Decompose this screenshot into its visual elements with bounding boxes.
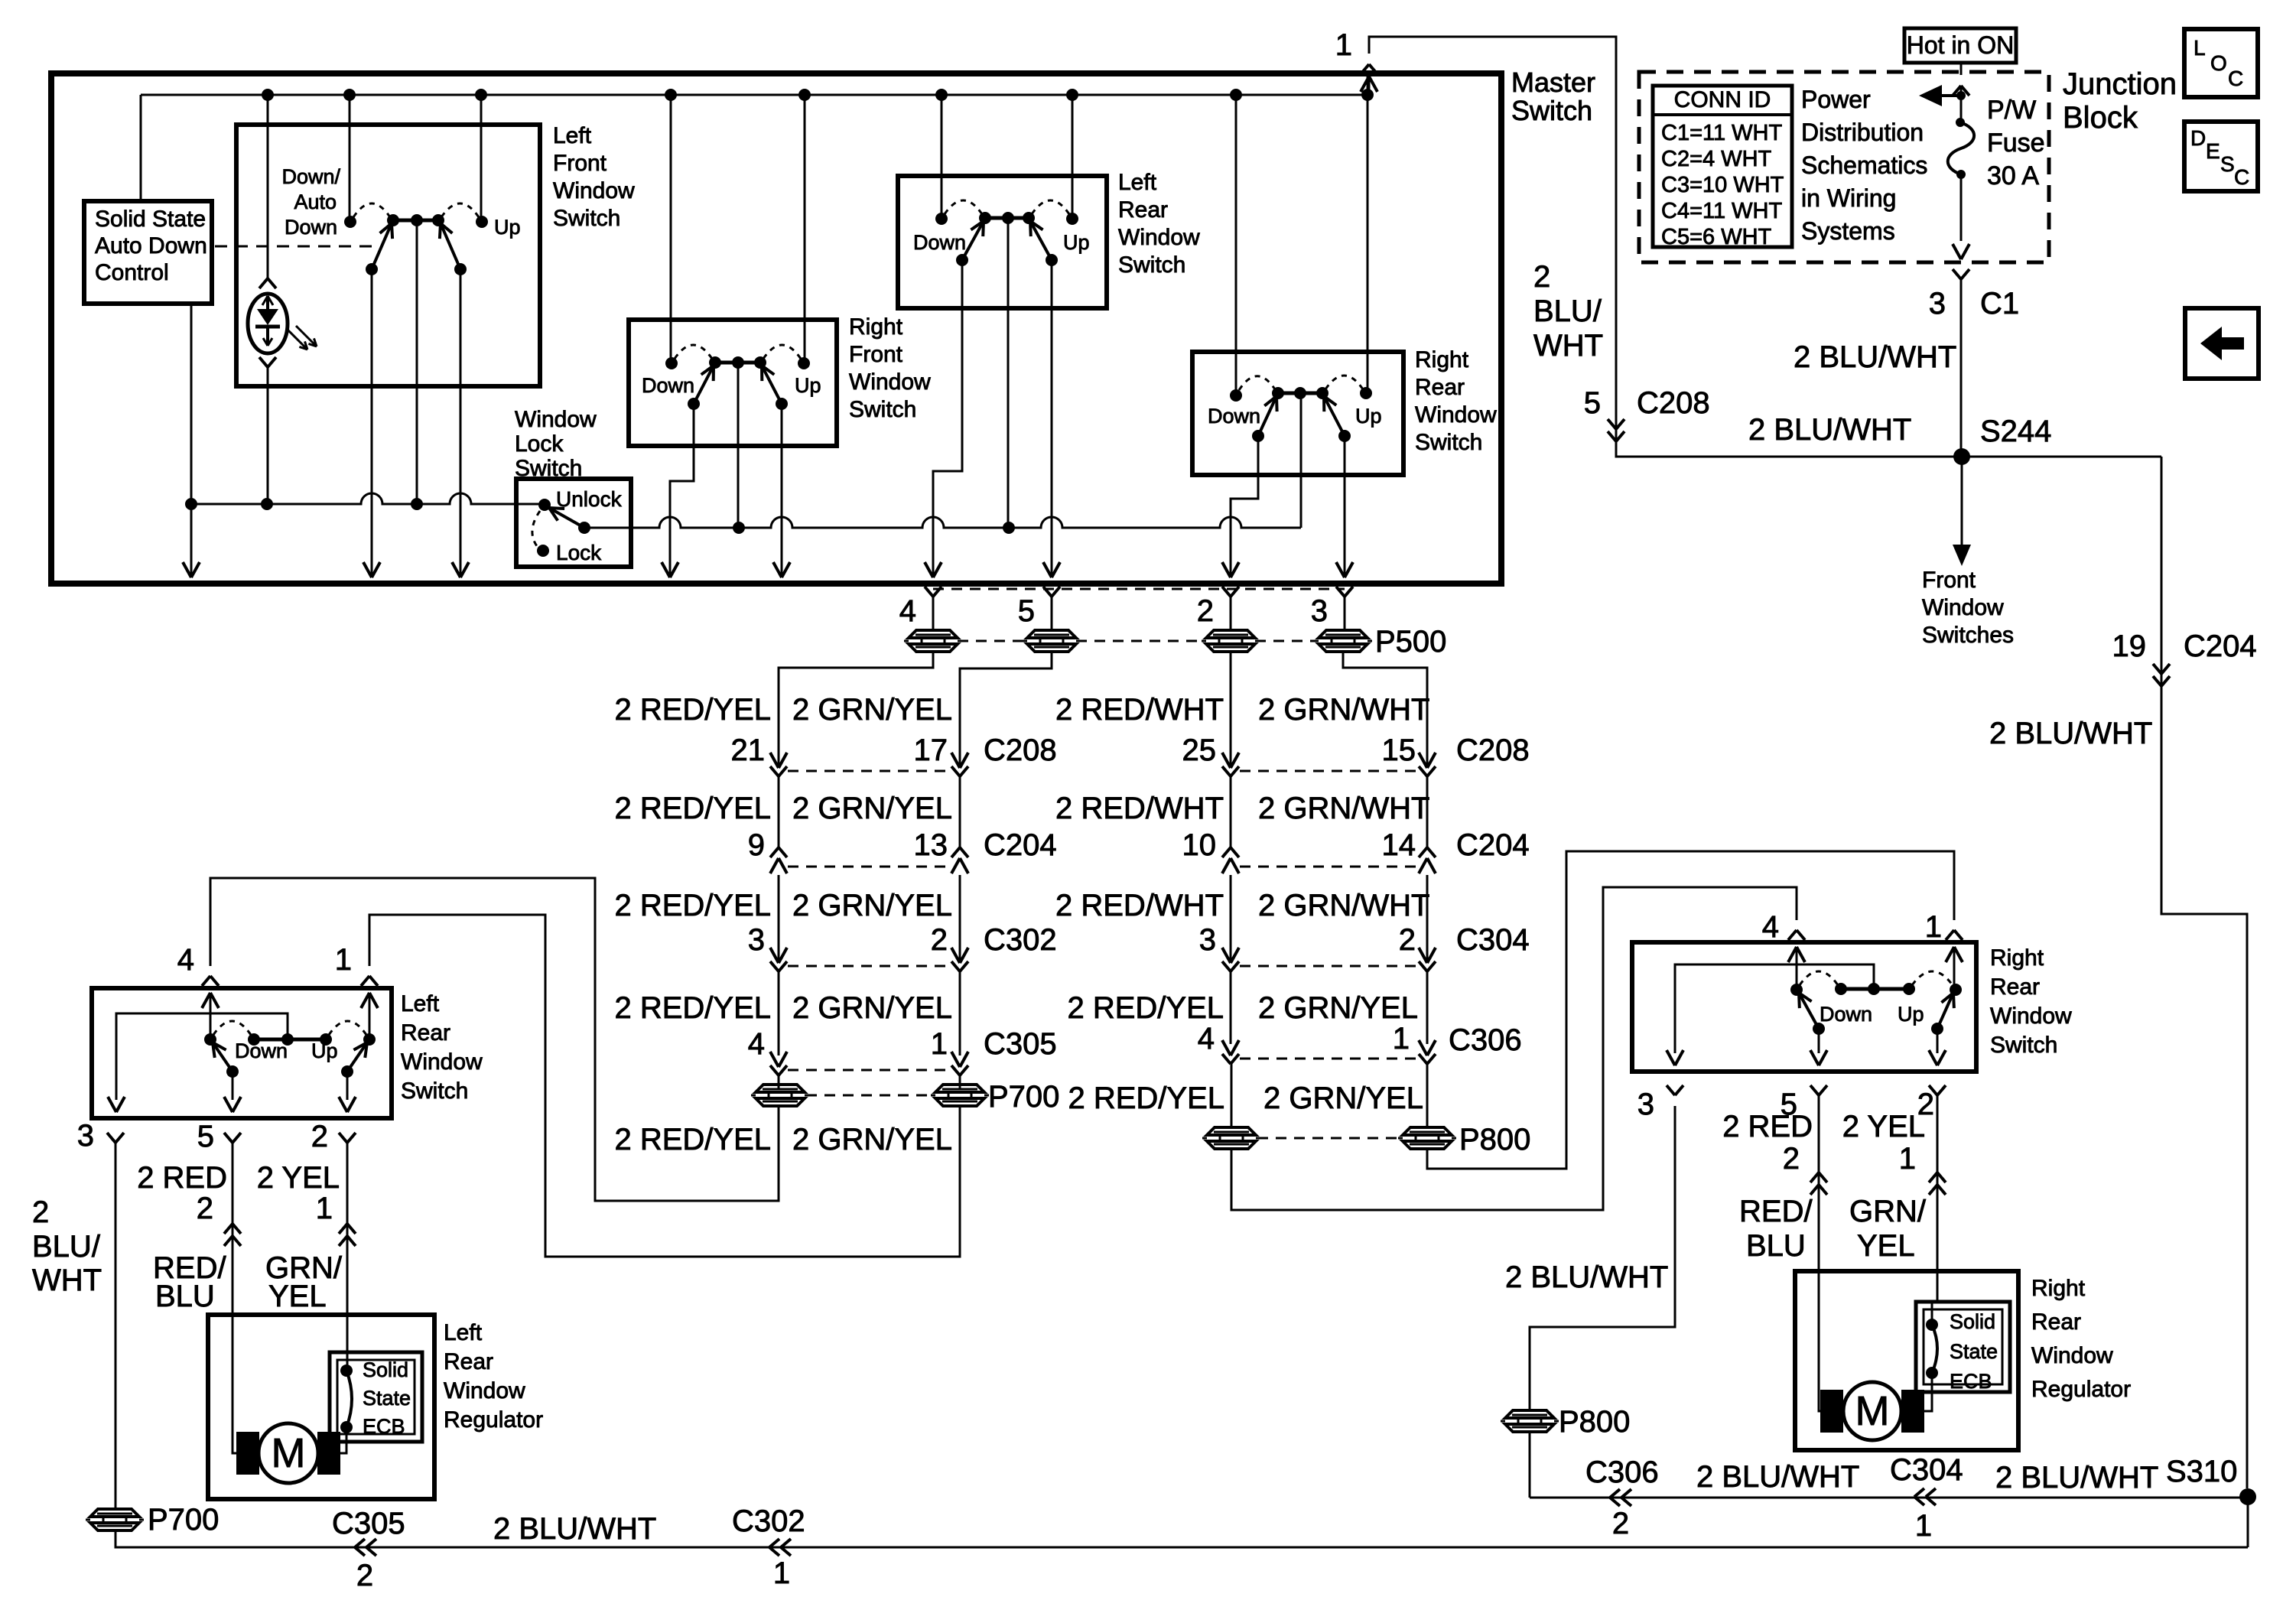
arrow into master bottom at 486: [363, 562, 372, 577]
node bus tap RFW up: [798, 89, 811, 101]
svg-text:E: E: [2206, 139, 2220, 163]
lower bus wire: [584, 517, 1301, 528]
svg-text:in Wiring: in Wiring: [1801, 184, 1896, 212]
RRWm right arm: [1324, 396, 1345, 436]
top bus: [141, 94, 1368, 96]
svg-text:2 RED/WHT: 2 RED/WHT: [1055, 792, 1224, 825]
svg-text:Window: Window: [849, 369, 931, 395]
svg-text:C306: C306: [1449, 1023, 1522, 1057]
C304 chevrons wire2: [1929, 1173, 1937, 1182]
wire col1 C208-C204: [778, 776, 780, 847]
wire col4 C204-C304: [1426, 875, 1429, 963]
wire pin5 to motor left: [233, 1315, 241, 1453]
svg-text:P500: P500: [1375, 625, 1446, 659]
wire S244 to C204 right: [2161, 457, 2163, 665]
wire P800 to bus corner: [1529, 1432, 1531, 1498]
svg-text:C204: C204: [2184, 629, 2257, 663]
LRWm down contact: [935, 213, 948, 225]
svg-text:Lock: Lock: [515, 431, 564, 457]
RRWm left arm: [1258, 396, 1276, 436]
C208 dashes right: [1240, 770, 1418, 772]
ECB switch left: [340, 1364, 353, 1377]
LED lamp circle: [248, 294, 288, 353]
wire right side to S244: [1616, 413, 2161, 457]
svg-text:21: 21: [731, 733, 766, 767]
LRW common link: [116, 1013, 288, 1100]
svg-text:C304: C304: [1890, 1453, 1963, 1487]
pin 3 fork below LRW: [107, 1133, 115, 1143]
LED light arrows: [287, 329, 307, 350]
svg-text:Right: Right: [1415, 347, 1469, 372]
svg-text:Window: Window: [553, 178, 635, 203]
RRWm dashed arc up: [1325, 376, 1363, 389]
wire bus to LED: [267, 95, 269, 278]
svg-text:C5=6 WHT: C5=6 WHT: [1661, 225, 1772, 249]
C305 chevron bottom bus: [355, 1539, 365, 1547]
node S244: [1953, 448, 1970, 465]
wire pin1 to bus: [1368, 76, 1371, 95]
wire right down to S310: [2161, 664, 2247, 1488]
wire pin1 to right side top: [1369, 37, 1616, 415]
svg-text:2 GRN/YEL: 2 GRN/YEL: [792, 693, 952, 727]
svg-text:Down: Down: [913, 231, 966, 254]
svg-text:Lock: Lock: [556, 541, 602, 564]
wire pin1 to up contact: [369, 993, 371, 1039]
RRW left arm dot: [1813, 1023, 1825, 1035]
LFW up contact: [476, 216, 488, 228]
svg-text:Up: Up: [1355, 405, 1382, 428]
RRW arm2 exit arrow: [1929, 1050, 1937, 1065]
svg-text:2 BLU/WHT: 2 BLU/WHT: [1696, 1460, 1859, 1494]
node LRWm center lower bus: [1003, 522, 1015, 534]
arrow into master bottom at 1022: [773, 562, 782, 577]
svg-text:2 BLU/WHT: 2 BLU/WHT: [1794, 340, 1956, 374]
wire col4 C304-C306: [1426, 971, 1429, 1044]
svg-text:M: M: [1855, 1388, 1890, 1434]
svg-text:2: 2: [1399, 923, 1416, 957]
svg-text:State: State: [363, 1387, 411, 1410]
svg-text:WHT: WHT: [1533, 329, 1603, 363]
svg-text:Front: Front: [553, 151, 607, 176]
svg-text:Rear: Rear: [1990, 974, 2040, 1000]
svg-text:BLU: BLU: [155, 1280, 215, 1313]
P700 dashed link: [806, 1094, 934, 1097]
svg-text:Left: Left: [1118, 170, 1157, 195]
lock switch arm: [549, 508, 584, 528]
svg-text:2: 2: [32, 1195, 49, 1229]
right front window switch box: [629, 320, 837, 446]
svg-text:14: 14: [1382, 828, 1416, 862]
svg-text:1: 1: [335, 943, 352, 977]
P700 connector barrel 2: [935, 1085, 984, 1092]
wire bus to LFW up contact: [480, 95, 483, 222]
svg-text:30 A: 30 A: [1987, 161, 2039, 190]
wire pin 5 to P500: [1051, 597, 1053, 630]
node LED top bus: [262, 89, 274, 101]
svg-text:17: 17: [914, 733, 948, 767]
pin4 fork above LRW: [202, 976, 210, 986]
pin1 entry arrow LRW: [361, 993, 369, 1008]
wire fuse down: [1960, 174, 1963, 241]
wire col4 C306-P800: [1426, 1064, 1429, 1127]
wire pin3 down to P700: [115, 1143, 117, 1509]
svg-text:C302: C302: [732, 1504, 805, 1538]
wire col1 C302-C305: [778, 971, 780, 1055]
LRWm left arm: [962, 221, 984, 260]
P700 connector (left wire): [90, 1509, 139, 1517]
RRWm dashed arc down: [1239, 376, 1275, 390]
node bus tap LFW up: [475, 89, 487, 101]
C204 dashes left: [788, 866, 951, 868]
svg-text:Regulator: Regulator: [2031, 1377, 2131, 1402]
LFW bar dots: [387, 214, 399, 226]
LOC box: [2184, 29, 2258, 97]
wire pin 3 to P500: [1344, 597, 1346, 630]
RRWm bar dots: [1272, 387, 1284, 399]
LFW dashed arc down: [353, 203, 390, 217]
svg-text:5: 5: [197, 1120, 214, 1153]
C306 crossing col3: [1222, 1040, 1231, 1055]
wire col2 C302-C305: [959, 971, 961, 1055]
svg-text:Window: Window: [401, 1049, 483, 1075]
svg-text:C: C: [2228, 67, 2243, 90]
svg-text:Window: Window: [515, 407, 597, 432]
svg-text:Systems: Systems: [1801, 217, 1895, 245]
svg-text:C208: C208: [1637, 386, 1710, 420]
node S310: [2239, 1488, 2256, 1505]
wire RRWm left arm down: [1231, 436, 1258, 575]
solid state auto down control box: [84, 201, 212, 304]
svg-text:Regulator: Regulator: [444, 1407, 543, 1433]
svg-text:M: M: [272, 1430, 306, 1476]
wire col1 C305-P700: [778, 1075, 780, 1089]
svg-text:2 RED/YEL: 2 RED/YEL: [614, 792, 771, 825]
RRW common link: [1675, 964, 1874, 1053]
wire col1 C204-C302: [778, 875, 780, 963]
wire bus to solid state: [140, 95, 142, 201]
node LFW center upper bus: [411, 498, 423, 510]
wire bus to LRWm up contact: [1072, 95, 1074, 219]
LRW arm5 exit arrow: [224, 1097, 233, 1112]
RRW bar dots: [1835, 983, 1847, 995]
pin 4 fork below master: [925, 587, 933, 597]
wire col4 to RRW pin1: [1427, 851, 1954, 1169]
svg-text:2 RED/YEL: 2 RED/YEL: [614, 991, 771, 1025]
svg-text:Switches: Switches: [1922, 623, 2014, 648]
svg-text:C306: C306: [1585, 1456, 1659, 1489]
C304 dashes: [1240, 965, 1418, 968]
svg-text:Switch: Switch: [401, 1078, 468, 1104]
svg-text:9: 9: [748, 828, 765, 862]
LRWm left arm dot: [956, 254, 968, 266]
svg-text:4: 4: [748, 1027, 765, 1061]
svg-text:1: 1: [1925, 910, 1942, 944]
RRWm contact bar: [1278, 392, 1322, 395]
svg-text:3: 3: [1311, 594, 1328, 628]
right rear window switch box (door): [1632, 942, 1976, 1072]
svg-text:2 RED/YEL: 2 RED/YEL: [614, 693, 771, 727]
wire pin3 to bottom bus: [115, 1530, 2248, 1547]
pin 1 fork: [1361, 64, 1369, 74]
svg-text:Auto Down: Auto Down: [95, 233, 207, 259]
RFW left arm dot: [688, 398, 700, 410]
pin 5 fork below LRW: [224, 1133, 233, 1143]
P700 connector barrel 1: [756, 1085, 805, 1092]
pin 3 fork below master: [1336, 587, 1345, 597]
lock contact: [537, 545, 549, 557]
svg-text:2 GRN/YEL: 2 GRN/YEL: [1258, 991, 1418, 1025]
svg-text:Rear: Rear: [1118, 197, 1168, 223]
svg-text:2: 2: [1612, 1507, 1629, 1540]
LRW up contact: [363, 1033, 376, 1046]
svg-text:1: 1: [1393, 1022, 1410, 1055]
svg-text:C302: C302: [984, 923, 1057, 957]
wire LRW right arm down: [346, 1072, 349, 1100]
wire col2 to LRW pin1: [369, 915, 960, 1257]
LRWm contact bar: [985, 216, 1029, 220]
C204 dashes right: [1240, 866, 1418, 868]
svg-text:2 RED/WHT: 2 RED/WHT: [1055, 693, 1224, 727]
node bus tap RRWm down: [1230, 89, 1242, 101]
wire ECB to motor right: [1920, 1373, 1932, 1411]
RFW down contact: [665, 357, 678, 369]
C304 crossing col4: [1419, 948, 1427, 963]
svg-text:3: 3: [1199, 923, 1216, 957]
wire ECB to motor left: [337, 1427, 346, 1453]
svg-text:Down: Down: [1820, 1003, 1872, 1026]
LRW bar dots: [248, 1033, 260, 1046]
pin4 entry arrow LRW: [202, 993, 210, 1008]
svg-text:2: 2: [1197, 594, 1214, 628]
C204 crossing col3: [1222, 847, 1231, 857]
pin 5 fork below master: [1043, 587, 1052, 597]
RRW right arm: [1937, 993, 1953, 1029]
P500 connector barrel 3: [1319, 630, 1368, 638]
C1 fork: [1953, 269, 1961, 279]
wire col2 C305-P700: [959, 1075, 961, 1089]
LRW contact bar: [254, 1038, 326, 1042]
svg-text:S310: S310: [2166, 1455, 2237, 1488]
RRW left arm: [1799, 993, 1819, 1029]
svg-text:2: 2: [1533, 260, 1550, 294]
svg-text:CONN ID: CONN ID: [1674, 87, 1771, 112]
svg-text:Right: Right: [1990, 945, 2044, 971]
svg-text:Block: Block: [2063, 101, 2138, 135]
svg-text:2 RED/YEL: 2 RED/YEL: [1067, 991, 1224, 1025]
svg-text:Window: Window: [1415, 402, 1497, 428]
LFW left arm: [372, 223, 392, 269]
RRWm up contact: [1360, 387, 1372, 399]
wire solid state to lower bus: [190, 304, 193, 575]
arrow into master bottom at 1375: [1043, 562, 1052, 577]
svg-text:3: 3: [1929, 287, 1946, 320]
RFW dashed arc up: [763, 345, 801, 359]
svg-text:ECB: ECB: [1950, 1370, 1992, 1393]
back arrow box: [2185, 308, 2259, 379]
wire C1 to S244: [1960, 279, 1963, 457]
wire bus to RFW down contact: [670, 95, 672, 363]
wire bus to LRWm down contact: [941, 95, 943, 219]
C208 crossing col1: [770, 753, 779, 768]
C306 crossing col4: [1419, 1040, 1427, 1055]
C204 crossing col1: [770, 847, 779, 857]
wire into ECB right: [1931, 1302, 1933, 1325]
svg-text:2 GRN/WHT: 2 GRN/WHT: [1258, 792, 1429, 825]
wire RRWm right arm down: [1344, 436, 1346, 575]
svg-text:Window: Window: [1990, 1003, 2072, 1029]
svg-text:Up: Up: [311, 1039, 338, 1062]
wire bus to RFW up contact: [804, 95, 806, 363]
pin 2 fork below LRW: [339, 1133, 347, 1143]
wire pin5 down RRW: [1818, 1095, 1820, 1271]
left rear window regulator box: [208, 1315, 434, 1499]
svg-text:2 RED/YEL: 2 RED/YEL: [614, 1123, 771, 1156]
svg-text:Front: Front: [849, 342, 903, 367]
svg-text:YEL: YEL: [1857, 1229, 1915, 1263]
RRW down contact: [1790, 984, 1803, 996]
svg-text:D: D: [2190, 126, 2206, 150]
svg-text:Window: Window: [1118, 225, 1200, 250]
svg-text:Solid: Solid: [363, 1358, 408, 1381]
LRW dashed arc up: [329, 1021, 366, 1035]
svg-text:C1: C1: [1980, 287, 2019, 320]
wire col1 to LRW pin4: [210, 878, 779, 1201]
C305 chevrons wire2: [339, 1224, 347, 1234]
svg-text:C304: C304: [1456, 923, 1530, 957]
wire S310 to bottom bus: [2247, 1497, 2249, 1547]
RRW dashed arc down: [1800, 971, 1838, 985]
wire P500-2 down col3: [1230, 652, 1232, 768]
wire pin3 RRW down: [1530, 1106, 1675, 1410]
wire pin2 down: [346, 1143, 349, 1352]
LRW left arm dot: [226, 1065, 239, 1078]
svg-text:Down: Down: [1208, 405, 1260, 428]
svg-text:4: 4: [1762, 910, 1779, 944]
wire fork to node: [1960, 86, 1963, 122]
wire RFW center down: [737, 363, 740, 528]
svg-text:ECB: ECB: [363, 1415, 405, 1438]
right rear window regulator box: [1795, 1271, 2018, 1450]
svg-text:Switch: Switch: [849, 397, 916, 422]
CONN ID table box: [1653, 86, 1792, 247]
svg-text:Left: Left: [553, 123, 592, 148]
wire pin4 to down contact: [210, 993, 212, 1039]
C208 chevrons right wire: [1608, 419, 1616, 429]
pin 1 entry arrow: [1361, 76, 1369, 92]
svg-text:Switch: Switch: [1990, 1033, 2057, 1058]
svg-text:YEL: YEL: [268, 1280, 327, 1313]
svg-text:P800: P800: [1459, 1123, 1530, 1156]
LFW right arm dot: [454, 263, 467, 275]
pin 3 fork below RRW: [1667, 1085, 1675, 1095]
svg-text:2: 2: [931, 923, 948, 957]
svg-text:P800: P800: [1559, 1405, 1630, 1439]
svg-text:Up: Up: [1898, 1003, 1924, 1026]
svg-text:19: 19: [2112, 629, 2147, 663]
svg-text:Window: Window: [1922, 595, 2004, 620]
svg-text:P700: P700: [988, 1080, 1059, 1114]
svg-text:2 RED/YEL: 2 RED/YEL: [1068, 1081, 1224, 1115]
P500 connector barrel 4: [909, 630, 958, 638]
pin 5 fork below RRW: [1810, 1085, 1819, 1095]
unlock contact: [538, 499, 551, 511]
svg-text:25: 25: [1182, 733, 1217, 767]
svg-text:2 BLU/WHT: 2 BLU/WHT: [493, 1512, 656, 1546]
svg-text:State: State: [1950, 1340, 1998, 1363]
LRW right arm dot: [341, 1065, 353, 1078]
fuse exit arrow: [1953, 244, 1961, 259]
LRW right arm: [347, 1042, 367, 1072]
LRWm dashed arc down: [945, 200, 982, 214]
LFW dashed arc up: [441, 203, 479, 217]
svg-text:2: 2: [1783, 1142, 1800, 1176]
wire col3 C208-C204: [1230, 776, 1232, 847]
wire LRWm center down: [1007, 218, 1010, 528]
RFW bar dots: [709, 356, 721, 369]
wire pin1 to up contact RRW: [1953, 947, 1956, 990]
svg-text:5: 5: [1584, 386, 1601, 420]
wire LFW left arm down: [371, 269, 373, 575]
feed arrow left: [1940, 94, 1961, 97]
wire LFW right arm down: [460, 269, 462, 575]
RRWm left arm dot: [1252, 430, 1264, 442]
svg-text:1: 1: [773, 1556, 790, 1590]
svg-text:3: 3: [1637, 1088, 1654, 1121]
svg-text:1: 1: [1335, 28, 1352, 62]
svg-text:3: 3: [77, 1119, 94, 1153]
svg-text:WHT: WHT: [32, 1264, 102, 1297]
LFW left arm dot: [366, 263, 378, 275]
wire col2 C208-C204: [959, 776, 961, 847]
LRWm bar dots: [979, 212, 991, 224]
P/W fuse 30A element: [1956, 118, 1965, 127]
svg-text:2 YEL: 2 YEL: [1842, 1110, 1925, 1143]
svg-text:Down: Down: [642, 374, 694, 397]
svg-text:C305: C305: [984, 1027, 1057, 1061]
svg-text:4: 4: [177, 943, 194, 977]
LRW dashed arc down: [213, 1021, 251, 1035]
svg-text:Up: Up: [795, 374, 821, 397]
svg-text:2 YEL: 2 YEL: [257, 1161, 340, 1195]
svg-text:Left: Left: [444, 1320, 483, 1345]
svg-text:2 BLU/WHT: 2 BLU/WHT: [1989, 717, 2152, 750]
svg-text:GRN/: GRN/: [1849, 1195, 1927, 1228]
pin1 fork above RRW: [1946, 930, 1954, 940]
wire bus to LFW down contact: [349, 95, 351, 222]
svg-text:C1=11 WHT: C1=11 WHT: [1661, 121, 1782, 145]
svg-text:Left: Left: [401, 991, 440, 1016]
svg-text:Switch: Switch: [1118, 252, 1185, 278]
wire P500-5 jog to col2: [960, 652, 1052, 767]
wire bus to RRWm down contact: [1235, 95, 1237, 395]
wire RRW right arm down: [1937, 1029, 1939, 1053]
C305 chevrons wire5: [224, 1224, 233, 1234]
S244 filled arrow: [1953, 545, 1971, 566]
motor M right: [1820, 1390, 1843, 1433]
svg-text:2 BLU/WHT: 2 BLU/WHT: [1748, 413, 1911, 447]
node bus tap LRWm down: [935, 89, 948, 101]
svg-text:2: 2: [197, 1192, 213, 1225]
svg-text:1: 1: [1899, 1142, 1916, 1176]
svg-text:Down: Down: [285, 216, 337, 239]
svg-text:1: 1: [1915, 1509, 1932, 1543]
svg-text:BLU/: BLU/: [1533, 294, 1602, 328]
C208 crossing col2: [951, 753, 960, 768]
node LED upper bus junction: [261, 498, 273, 510]
svg-text:2 GRN/YEL: 2 GRN/YEL: [792, 991, 952, 1025]
svg-text:10: 10: [1182, 828, 1217, 862]
C302 chevron bottom bus: [769, 1539, 779, 1547]
